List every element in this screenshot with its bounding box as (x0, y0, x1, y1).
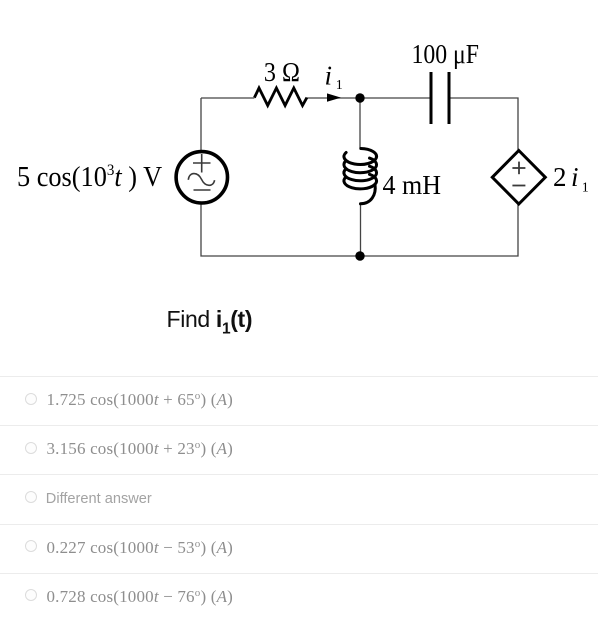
svg-text:i: i (571, 162, 579, 192)
option A (0, 376, 598, 425)
options list (0, 376, 606, 622)
node junction dot (bottom, node B) (355, 251, 364, 260)
value label "5 cos(10^3 t) V" for V1 (17, 161, 163, 192)
wire node to capacitor (360, 97, 430, 99)
V1 AC sine symbol (188, 174, 214, 186)
E1 polarity minus sign (512, 185, 525, 187)
current direction arrow for i1 (327, 93, 341, 101)
option B (0, 425, 598, 474)
svg-text:100 μF: 100 μF (412, 38, 480, 69)
circuit schematic (0, 0, 606, 300)
svg-text:3 Ω: 3 Ω (264, 57, 300, 87)
V1 polarity minus sign (194, 189, 211, 191)
node junction dot (top, node A) (355, 93, 364, 102)
resistor R1 (3 ohm) (254, 88, 307, 106)
wire capacitor to top-right corner (451, 98, 519, 150)
wire node to inductor top (359, 98, 361, 148)
inductor L1 (4 mH) coil (344, 149, 377, 204)
svg-text:5 cos(103t ) V: 5 cos(103t ) V (17, 161, 163, 192)
voltage source V1 circle (5cos(10^3 t) V) (176, 152, 227, 203)
capacitor C1 (100 uF) plates (431, 72, 449, 124)
option D (0, 524, 598, 573)
svg-text:i: i (325, 61, 333, 91)
wire left vertical above source (200, 98, 202, 151)
dependent source E1 diamond (2*i1) (492, 151, 545, 205)
svg-text:1: 1 (582, 181, 589, 196)
V1 polarity plus sign (188, 154, 214, 190)
find i1(t) prompt (167, 308, 253, 330)
wire bottom-left (201, 204, 360, 257)
option E (0, 573, 598, 622)
svg-text:2: 2 (553, 162, 567, 192)
svg-text:1: 1 (336, 78, 343, 93)
wire top-left horizontal (201, 97, 254, 99)
wire resistor to node (307, 97, 360, 99)
svg-text:4 mH: 4 mH (383, 170, 442, 200)
wire diamond bottom to bottom-right corner (360, 204, 518, 256)
E1 polarity plus sign (512, 162, 525, 186)
wire inductor bottom to node (360, 204, 362, 256)
option C (0, 474, 598, 523)
